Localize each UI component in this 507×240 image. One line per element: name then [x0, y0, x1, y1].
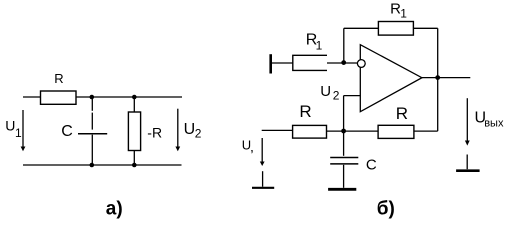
- resistor R1 (top feedback box): [378, 22, 413, 36]
- svg-text:1: 1: [400, 6, 407, 20]
- capacitor C branch top lead (with small break): [91, 97, 93, 111]
- ground (left, under input U): [252, 187, 274, 189]
- svg-text:вых: вых: [484, 118, 504, 130]
- wire: left ground stub: [262, 171, 264, 187]
- svg-text:U: U: [5, 117, 15, 133]
- arrowhead U1: [21, 147, 26, 152]
- wire: circuit (a) top rail left lead: [23, 96, 41, 98]
- resistor -R (vertical box, circuit a): [128, 112, 140, 151]
- wire: non-inverting input horizontal: [344, 95, 361, 97]
- svg-text:U: U: [320, 83, 331, 100]
- svg-text:1: 1: [15, 126, 22, 140]
- arrowhead U2: [175, 147, 180, 152]
- svg-text:R: R: [54, 71, 63, 86]
- svg-text:C: C: [366, 157, 377, 174]
- op-amp U1 triangle: [360, 45, 422, 112]
- wire: node down to capacitor: [343, 131, 345, 156]
- wire: lower-right R box to right vertical: [414, 130, 438, 132]
- wire: feedback left vertical: [343, 28, 345, 62]
- wire: right ground stub: [466, 155, 468, 170]
- terminal T-bar (left input of R1): [269, 54, 272, 73]
- svg-text:а): а): [106, 199, 123, 220]
- svg-text:R: R: [396, 104, 408, 123]
- wire: capacitor to middle ground: [343, 165, 345, 188]
- arrow U_vyh (output voltage): [466, 98, 468, 141]
- wire: non-inverting input vertical to node: [343, 96, 345, 132]
- arrowhead U_vyh: [465, 141, 470, 146]
- arrow U1 (input voltage, circuit a): [22, 110, 24, 148]
- wire: op-amp output: [422, 77, 470, 79]
- wire: feedback right vertical down to R box: [437, 28, 439, 131]
- svg-text:2: 2: [333, 89, 340, 103]
- node: a top-right junction (-R to top rail): [132, 95, 137, 100]
- svg-text:1: 1: [316, 39, 323, 53]
- node: output junction: [435, 75, 440, 80]
- arrowhead U input (b): [260, 162, 265, 167]
- svg-text:C: C: [61, 123, 73, 140]
- wire: T-bar to R1 left box: [272, 62, 293, 64]
- capacitor C top plate (circuit b): [330, 157, 358, 159]
- inverting input inversion circle: [357, 60, 365, 68]
- ground (right, under U_vyh): [456, 169, 480, 172]
- node: inverting input junction: [341, 60, 346, 65]
- svg-text:2: 2: [195, 127, 202, 141]
- resistor -R leads: [133, 97, 135, 112]
- capacitor C bottom lead: [91, 135, 93, 165]
- wire: feedback top left horizontal: [344, 27, 379, 29]
- arrow U2 (output voltage, circuit a): [177, 109, 179, 148]
- resistor R (lower-right box): [378, 125, 414, 138]
- resistor R1 (left, open-right box): [293, 55, 327, 70]
- capacitor C plate (circuit a): [78, 133, 107, 135]
- svg-text:R: R: [299, 102, 311, 121]
- wire: feedback top right horizontal: [413, 27, 437, 29]
- svg-text:U: U: [184, 121, 196, 138]
- wire: circuit (a) bottom rail: [23, 164, 182, 166]
- wire: node to lower-right R box: [344, 130, 379, 132]
- svg-text:б): б): [377, 199, 395, 220]
- resistor R (lower-left box): [293, 125, 327, 138]
- node: RC junction (lower): [341, 129, 346, 134]
- node: a bottom-left junction: [90, 163, 95, 168]
- capacitor C bottom plate (circuit b): [330, 163, 358, 165]
- wire: R1 box to inverting input circle: [327, 62, 358, 64]
- resistor R (series, circuit a): [41, 91, 77, 104]
- wire: input U to lower R box: [262, 129, 293, 131]
- wire: lower R box to node: [327, 130, 344, 132]
- node: a top-left junction (cap to top rail): [90, 95, 95, 100]
- svg-text:,: ,: [250, 138, 254, 154]
- ground (middle, under C): [328, 188, 356, 191]
- wire: circuit (a) top rail from R to right end: [76, 96, 182, 98]
- node: a bottom-right junction: [132, 163, 137, 168]
- svg-text:-R: -R: [147, 124, 162, 140]
- arrow U input (circuit b): [261, 138, 263, 163]
